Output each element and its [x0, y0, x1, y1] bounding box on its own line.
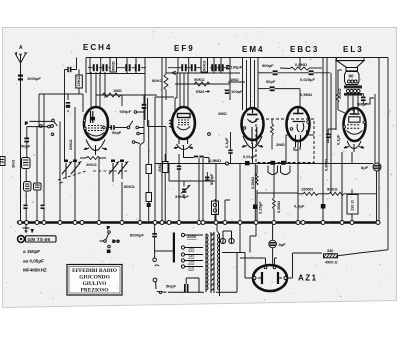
- resistor 1500ohm: [298, 187, 318, 196]
- svg-text:50pF: 50pF: [112, 130, 122, 135]
- capacitor 5000pF EL3: [353, 94, 374, 107]
- capacitor 100pF: [225, 89, 243, 94]
- wire left column: [21, 83, 76, 221]
- svg-text:0,25μF: 0,25μF: [258, 201, 263, 214]
- svg-text:140: 140: [188, 255, 194, 259]
- svg-text:220V: 220V: [187, 234, 197, 239]
- label 160: [188, 248, 194, 252]
- resistor field coil 330/4500: [324, 249, 389, 265]
- svg-text:EL3: EL3: [343, 45, 364, 54]
- svg-text:0,5MΩ: 0,5MΩ: [276, 200, 281, 213]
- tube label AZ1: [298, 274, 318, 283]
- wire right side verticals: [337, 58, 389, 250]
- antenna: [15, 52, 27, 66]
- svg-text:1500Ω: 1500Ω: [301, 187, 314, 192]
- resistor 0,5M EBC3 grid: [300, 89, 313, 107]
- capacitor 50pF antenna: [21, 138, 31, 149]
- resistor 50K: [175, 77, 230, 86]
- capacitor 50pF ECH4: [108, 125, 127, 135]
- wire EF9 screen box: [162, 58, 240, 222]
- svg-text:PREZIOSO: PREZIOSO: [81, 287, 109, 293]
- switch F band left: [25, 119, 57, 136]
- tube EM4 cathode V with arrows: [242, 136, 263, 152]
- resistor 20K ECH4: [80, 157, 106, 168]
- tube label EF9: [174, 44, 195, 53]
- switch mains 5KpF: [153, 265, 237, 294]
- svg-text:ECH4: ECH4: [83, 43, 112, 52]
- svg-text:500pF: 500pF: [262, 63, 274, 68]
- capacitor variable trimmer D: [118, 160, 128, 177]
- svg-text:22KΩ: 22KΩ: [76, 75, 81, 86]
- tube EL3 envelope: [343, 108, 365, 141]
- badge GM TS-06: [18, 236, 56, 243]
- transformer power primary: [206, 234, 208, 292]
- capacitor 0,01uF EM4 label: [243, 154, 256, 159]
- svg-text:160: 160: [188, 248, 194, 252]
- label aa 0,05uF: [23, 259, 44, 264]
- wire transformer top: [217, 225, 232, 297]
- resistor 50Kohm: [318, 187, 377, 196]
- tube label EM4: [242, 45, 264, 54]
- resistor 22K vertical box: [76, 75, 83, 88]
- wire EL3 left bundle: [323, 58, 336, 222]
- svg-text:3÷85pF: 3÷85pF: [175, 194, 189, 199]
- capacitor EF9 grid pair: [177, 166, 181, 170]
- wire AZ1 loop: [222, 253, 322, 293]
- svg-text:3KΩ: 3KΩ: [11, 159, 16, 168]
- wire top rail: [86, 57, 388, 59]
- svg-text:GM TS-06: GM TS-06: [28, 237, 51, 242]
- wire ECH4 osc column: [66, 95, 144, 223]
- svg-text:0,025μF: 0,025μF: [300, 77, 315, 82]
- resistor 80K: [152, 58, 168, 101]
- svg-text:0,8MΩ: 0,8MΩ: [324, 158, 329, 171]
- label 125: [188, 261, 194, 265]
- svg-text:EM4: EM4: [242, 45, 264, 54]
- svg-text:EFFEDIBI RADIO: EFFEDIBI RADIO: [72, 268, 117, 274]
- svg-text:MF465KHZ: MF465KHZ: [23, 268, 47, 273]
- svg-text:4500 Ω: 4500 Ω: [325, 261, 338, 265]
- tube EM4 envelope: [242, 108, 264, 144]
- capacitor padder box D: [146, 193, 152, 222]
- wire antenna down: [20, 65, 22, 221]
- svg-text:0,5μF: 0,5μF: [294, 204, 305, 209]
- wire EM4 vertical bundle: [243, 58, 259, 111]
- svg-text:2MΩ: 2MΩ: [157, 162, 162, 172]
- wire speaker to EL3: [338, 96, 358, 113]
- svg-text:A: A: [19, 45, 23, 51]
- node contact circle EF9: [208, 133, 211, 136]
- svg-text:110: 110: [188, 267, 194, 271]
- node B+ junction circle: [226, 162, 229, 165]
- capacitor 0,5uF: [294, 194, 325, 221]
- svg-text:EBC3: EBC3: [290, 45, 319, 54]
- capacitor 0,25uF: [253, 164, 263, 222]
- svg-text:50pF: 50pF: [21, 144, 31, 149]
- svg-text:100μF: 100μF: [231, 65, 243, 70]
- capacitor 0,025uF: [300, 70, 330, 82]
- svg-text:0,5MΩ: 0,5MΩ: [250, 176, 255, 189]
- capacitor 8000pF: [130, 225, 157, 262]
- tube EF9 envelope: [170, 107, 195, 139]
- capacitor coupling lower: [66, 102, 70, 108]
- svg-text:90KΩ: 90KΩ: [202, 60, 207, 71]
- dashed box EBC3: [256, 119, 314, 163]
- capacitor padder box C: [146, 120, 152, 193]
- resistor 25K vertical label: [68, 139, 73, 150]
- ground terminal T: [23, 225, 35, 234]
- tube ECH4 envelope: [83, 107, 108, 140]
- svg-text:AZ1: AZ1: [298, 274, 318, 283]
- capacitor variable trimmer C: [109, 160, 119, 177]
- capacitor 500pF EM4: [258, 63, 300, 75]
- wire antenna coupling top: [39, 58, 83, 128]
- capacitor coupling top: [67, 67, 71, 72]
- resistor 1M: [96, 88, 157, 129]
- name plate box: [67, 265, 122, 296]
- capacitor 3-85pF trimmer: [175, 186, 190, 200]
- svg-text:EF9: EF9: [174, 44, 195, 53]
- speaker voice coil box: [345, 72, 360, 85]
- wire bottom bus drops: [240, 225, 256, 253]
- main bus wire: [17, 221, 380, 223]
- svg-text:2MΩ: 2MΩ: [276, 142, 286, 147]
- tube EBC3 envelope: [287, 107, 310, 148]
- pilot lamp terminals: [220, 231, 234, 244]
- wire EF9 lower area: [148, 97, 231, 223]
- capacitor EM4 target couple: [245, 161, 290, 175]
- node EM4 tap label: [196, 89, 209, 94]
- svg-text:20KΩ: 20KΩ: [86, 162, 97, 167]
- svg-text:125: 125: [188, 261, 194, 265]
- resistor 0,5M vertical EM4: [273, 164, 282, 222]
- svg-text:90: 90: [349, 74, 355, 79]
- node junction circles left: [40, 125, 54, 128]
- svg-text:2MΩ: 2MΩ: [218, 111, 228, 116]
- wire EF9 tube top leads: [175, 73, 188, 110]
- capacitor variable trimmer A: [62, 160, 72, 177]
- svg-text:8μF: 8μF: [279, 242, 287, 247]
- switch band F DC M: [100, 225, 120, 254]
- svg-text:990Ω: 990Ω: [111, 60, 116, 71]
- svg-text:5KpF: 5KpF: [166, 284, 177, 289]
- capacitor 500pF ECH4: [120, 104, 147, 114]
- svg-text:0,5MΩ: 0,5MΩ: [209, 158, 222, 163]
- svg-text:D C: D C: [113, 239, 120, 244]
- svg-text:1MΩ: 1MΩ: [113, 88, 123, 93]
- resistor box ECH4 vertical: [110, 58, 117, 73]
- svg-text:0,1μF: 0,1μF: [336, 134, 341, 145]
- capacitor 0,1uF EM4 vertical: [224, 137, 233, 154]
- resistor box 90K vertical: [201, 58, 208, 73]
- capacitor 500pF vertical EF9: [205, 173, 214, 185]
- capacitor electrolytic 8uF AZ1: [269, 225, 286, 265]
- svg-text:110 Ω: 110 Ω: [350, 199, 355, 211]
- svg-text:330: 330: [327, 249, 333, 253]
- capacitor row EF9: [181, 64, 229, 71]
- capacitor row ECH4: [93, 64, 140, 71]
- tube ECH4 cathode V with arrows: [84, 140, 107, 156]
- capacitor electrolytic 8uF B+: [361, 163, 381, 171]
- capacitor variable trimmer B: [71, 160, 81, 177]
- svg-text:0,01μF: 0,01μF: [243, 154, 256, 159]
- scan speckle noise: [6, 31, 394, 303]
- svg-text:50KΩ: 50KΩ: [327, 187, 338, 192]
- resistor 0,8M EBC3: [280, 62, 322, 70]
- label MF 465 KHz: [23, 268, 47, 273]
- transformer power core: [211, 232, 214, 293]
- capacitor 0,1uF EL3 vertical: [326, 129, 341, 145]
- wire tuning gang dashed: [58, 171, 129, 184]
- bus junction circles: [18, 221, 380, 225]
- tube EF9 cathode V with arrows: [174, 138, 209, 164]
- svg-text:500pF: 500pF: [120, 109, 132, 114]
- resistor 1M right: [228, 77, 245, 82]
- svg-text:8μF: 8μF: [361, 165, 369, 170]
- tube label EBC3: [290, 45, 319, 54]
- capacitor EF9 bottom pair: [194, 156, 204, 158]
- resistor 2M EF9 box: [157, 162, 168, 173]
- tube EL3 cathode V with arrows: [344, 141, 364, 152]
- switch wave band contacts: [127, 111, 144, 144]
- resistor 20K output vertical: [337, 70, 343, 110]
- inductor oscillator coils: [24, 182, 42, 192]
- svg-text:50pF: 50pF: [266, 79, 276, 84]
- label 140: [188, 255, 194, 259]
- switch selector bar: [173, 233, 175, 263]
- wire EM4 EBC3 lower: [240, 130, 314, 223]
- tube AZ1 envelope: [253, 265, 287, 291]
- voltage selector terminals: [181, 233, 203, 268]
- wire ECH4 screen box: [86, 58, 146, 121]
- output transformer magnet band: [344, 85, 362, 95]
- capacitor left pair: [23, 205, 44, 209]
- svg-text:0,1μF: 0,1μF: [224, 137, 229, 148]
- wire B+ rail: [155, 152, 373, 223]
- capacitor 100uF label: [231, 65, 243, 70]
- label 220V: [187, 234, 197, 239]
- capacitor 50pF EM4: [258, 79, 300, 91]
- resistor 0,8M vertical EBC3: [324, 158, 329, 171]
- svg-text:a 150pF: a 150pF: [23, 249, 40, 254]
- label a 150pF: [23, 249, 40, 254]
- svg-text:GIOCONDO: GIOCONDO: [79, 275, 110, 281]
- wire ECH4 tube top leads: [83, 72, 105, 112]
- transformer power secondary: [218, 234, 220, 292]
- resistor 110ohm box: [347, 195, 358, 215]
- svg-text:aa 0,05μF: aa 0,05μF: [23, 259, 44, 264]
- resistor 80K mid label: [124, 184, 135, 189]
- capacitor 1000pF: [18, 75, 41, 82]
- resistor 0,5M EM4 target: [250, 165, 298, 221]
- svg-text:0,5MΩ: 0,5MΩ: [300, 92, 313, 97]
- svg-text:80KΩ: 80KΩ: [124, 184, 135, 189]
- svg-text:500pF: 500pF: [209, 173, 214, 185]
- svg-text:0,8MΩ: 0,8MΩ: [295, 62, 308, 67]
- tube label EL3: [343, 45, 364, 54]
- resistor 2M EBC3 label: [271, 120, 286, 150]
- inductor antenna coil 3K: [11, 158, 31, 169]
- resistor 2M EM4 label: [218, 111, 228, 116]
- svg-text:1000pF: 1000pF: [27, 76, 41, 81]
- wire EBC3 plate vertical: [299, 58, 301, 69]
- svg-text:8000pF: 8000pF: [130, 233, 144, 238]
- resistor 0,5M EF9: [209, 158, 222, 163]
- svg-text:25KΩ: 25KΩ: [68, 139, 73, 150]
- svg-text:EM4: EM4: [196, 89, 205, 94]
- wire to selector bar: [155, 250, 173, 252]
- label 110: [188, 267, 194, 271]
- speaker cone: [337, 61, 365, 71]
- svg-text:1MΩ: 1MΩ: [230, 77, 240, 82]
- node A antenna label: [19, 45, 23, 51]
- connector pickup jack: [212, 201, 219, 215]
- inductor edge coil partial: [0, 157, 5, 166]
- tube label ECH4: [83, 43, 112, 52]
- svg-text:100pF: 100pF: [231, 89, 243, 94]
